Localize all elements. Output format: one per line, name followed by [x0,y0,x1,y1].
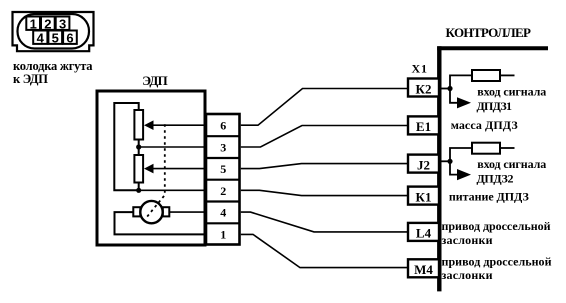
svg-text:привод дроссельной: привод дроссельной [442,255,552,269]
svg-text:привод дроссельной: привод дроссельной [442,219,551,233]
wire junction to pin 3 of block [139,146,207,148]
svg-text:5: 5 [52,31,59,46]
wire motor right to pin 4 of block [169,211,207,213]
wire resistor DPDZ1 output [500,74,515,76]
svg-text:ДПДЗ2: ДПДЗ2 [477,172,514,186]
pin K2 [408,79,439,97]
wire junction down to arrow DPDZ1 [450,89,457,103]
harness connector XP1 outer body [13,12,94,51]
svg-text:3: 3 [220,140,226,154]
pin 6 [63,31,77,46]
svg-text:2: 2 [220,184,226,198]
svg-text:КОНТРОЛЛЕР: КОНТРОЛЛЕР [446,25,532,40]
wire block pin 1 to M4 [241,234,408,267]
wire R1 bottom to junction [138,140,140,148]
wire block pin 2 to K1 [241,190,408,195]
wire block pin 5 to J2 [241,164,408,169]
pin 2 [41,17,55,32]
signal arrow DPDZ1 [457,97,471,108]
potentiometer R2 (ДПДЗ2 track) [134,155,143,183]
svg-text:К1: К1 [416,189,432,204]
mechanical coupling (dashed) wipers to motor [146,124,165,218]
resistor (вход сигнала ДПДЗ1) [472,70,500,81]
junction node at J2 [447,159,452,164]
svg-text:3: 3 [59,17,66,32]
pin E1 [408,116,439,134]
wire junction to pin 2 of block [139,189,207,191]
pin 4 [33,31,47,46]
label: привод дроссельной заслонки (L4) [442,219,551,247]
pin K1 [408,187,439,205]
svg-text:1: 1 [220,227,226,241]
pin J2 [408,155,439,173]
resistor (вход сигнала ДПДЗ2) [472,143,500,154]
wire junction to R2 top [138,147,140,155]
svg-text:L4: L4 [416,226,432,241]
potentiometer R1 (ДПДЗ1 track) [134,110,143,140]
wire motor left to pin 1 of block [115,212,208,234]
wire R2 bottom to junction [138,183,140,191]
pin M4 [408,259,439,277]
controller boundary [437,46,548,291]
svg-text:к ЭДП: к ЭДП [13,72,48,86]
wire junction up to resistor branch DPDZ2 [450,148,472,161]
wire resistor DPDZ2 output [500,147,515,149]
svg-text:М4: М4 [414,262,433,277]
connector block on EDP (6 cells) [206,114,240,245]
wire block pin 6 to K2 [241,89,408,126]
svg-text:вход сигнала: вход сигнала [477,85,546,99]
svg-text:колодка жгута: колодка жгута [13,59,93,73]
wire K2 to junction [441,88,450,90]
svg-text:масса ДПДЗ: масса ДПДЗ [451,118,518,132]
pin 5 [48,31,62,46]
motor M1 [133,201,169,223]
svg-text:6: 6 [220,119,226,133]
svg-text:1: 1 [30,17,37,32]
svg-text:питание ДПДЗ: питание ДПДЗ [449,190,529,204]
wire block pin 3 to E1 [241,126,408,148]
svg-text:J2: J2 [417,157,430,172]
svg-text:ДПДЗ1: ДПДЗ1 [477,99,513,113]
pin L4 [408,223,439,241]
svg-text:6: 6 [66,31,73,46]
svg-text:заслонки: заслонки [442,233,493,247]
svg-text:X1: X1 [412,61,428,75]
label: привод дроссельной заслонки (M4) [442,255,552,283]
svg-text:К2: К2 [416,81,432,96]
EDP unit box [97,91,205,245]
wire frame: pot R1 top to pot R2 bottom [114,103,138,190]
pin 1 [26,17,40,32]
label: вход сигнала ДПДЗ1 [477,85,547,114]
label: колодка жгута к ЭДП [13,59,93,86]
wire block pin 4 to L4 [241,212,408,232]
svg-text:заслонки: заслонки [442,268,493,282]
svg-text:4: 4 [220,206,226,220]
pin 3 [56,17,70,32]
label: вход сигнала ДПДЗ2 [477,157,547,186]
signal arrow DPDZ2 [457,169,471,180]
junction node R1/R2 [136,144,141,149]
svg-text:Е1: Е1 [416,119,431,134]
wiper arrow R1 with wire to pin 6 of block [144,120,207,130]
svg-text:вход сигнала: вход сигнала [477,157,546,171]
svg-text:5: 5 [220,162,226,176]
svg-text:ЭДП: ЭДП [142,73,168,88]
junction node at K2 [447,86,452,91]
wire junction up to resistor branch DPDZ1 [450,75,472,88]
svg-text:2: 2 [44,17,51,32]
wire junction down to arrow DPDZ2 [450,161,457,174]
wiper arrow R2 with wire to pin 5 of block [144,164,207,174]
wire J2 to junction [441,160,450,162]
junction node R2 bottom [136,188,141,193]
svg-text:4: 4 [37,31,45,46]
